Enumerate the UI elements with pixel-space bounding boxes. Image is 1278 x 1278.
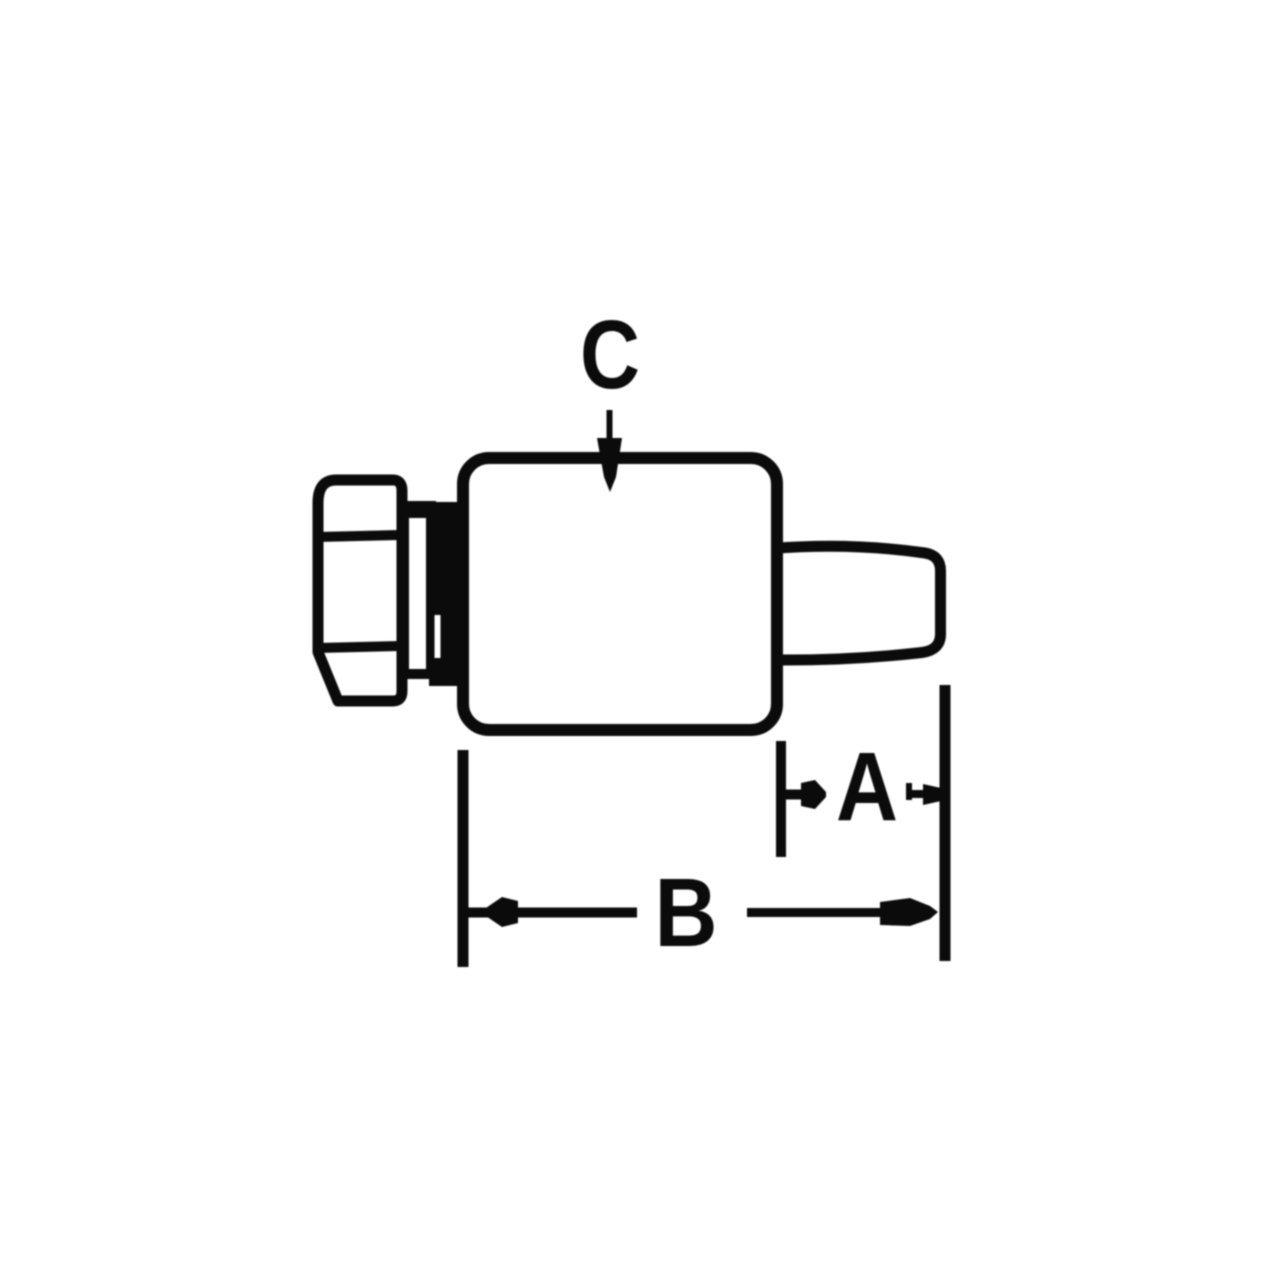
dim A left arrow [784,790,802,800]
hex nut (left, side view) [318,480,402,701]
dim B line left segment [466,908,637,918]
protrusion (threaded stub on right of body) [772,546,941,660]
dim A left extension line [776,741,786,857]
C leader line [607,410,613,442]
highlight slit in shadow band [435,615,441,658]
dim A right arrow [906,783,912,800]
shadow band between washer and body [429,502,462,686]
dim B left extension line [458,750,469,967]
dim B line right segment [747,908,890,917]
dim B right arrow [880,898,938,926]
dim A/B right extension line [940,685,951,961]
C arrow (down, through body top edge) [597,438,622,492]
nut facet line upper [317,535,399,537]
washer top bar [400,503,432,518]
dim B left arrow [480,897,518,927]
svg-text:C: C [580,300,640,409]
svg-text:B: B [655,858,718,967]
nut facet line lower [317,646,399,648]
svg-text:A: A [836,732,898,841]
main body (rounded rectangle) [463,458,777,730]
washer / collar [404,506,431,674]
